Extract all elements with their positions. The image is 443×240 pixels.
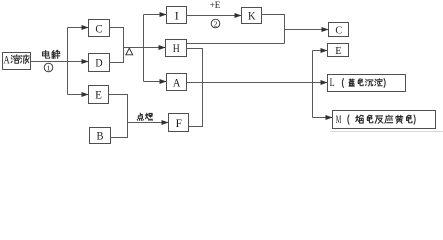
node C box right: [329, 23, 349, 37]
node D box: [89, 54, 110, 72]
wire branch vertical right: [312, 51, 314, 118]
arrowhead into F: [162, 120, 169, 125]
node E box right: [328, 44, 349, 57]
wire scan artifact: [330, 131, 443, 133]
wire H bottom elbow: [187, 49, 203, 127]
svg-text:1: 1: [47, 63, 51, 72]
label 电解: [42, 50, 59, 58]
svg-text:I: I: [175, 9, 179, 23]
node C box left: [89, 20, 110, 37]
arrowhead into E2: [321, 48, 328, 53]
wire branch vertical mid: [143, 15, 145, 82]
arrowhead into L: [321, 80, 328, 85]
label ①: [44, 63, 53, 72]
wire H top to merge: [187, 43, 285, 45]
wire merge to F: [128, 122, 169, 124]
arrowhead into C: [82, 25, 89, 30]
wire A to L: [187, 82, 328, 84]
svg-text:+E: +E: [210, 0, 221, 10]
node E box left: [89, 86, 109, 104]
wire branch to I: [144, 14, 167, 16]
wire K right elbow: [262, 15, 285, 44]
svg-text:L: L: [330, 75, 335, 89]
wire branch to E2: [313, 50, 328, 52]
label ②: [211, 19, 220, 28]
svg-text:F: F: [176, 116, 183, 130]
node K box: [242, 8, 262, 24]
arrowhead into H: [159, 45, 166, 50]
arrowhead into E: [82, 92, 89, 97]
svg-text:M: M: [336, 112, 342, 126]
arrowhead into A: [160, 79, 167, 84]
svg-text:2: 2: [214, 19, 218, 28]
wire branch vertical left: [67, 28, 69, 95]
svg-text:A: A: [4, 55, 11, 67]
wire D right elbow: [110, 48, 124, 63]
arrowhead into D: [82, 59, 89, 64]
svg-text:K: K: [248, 9, 256, 23]
svg-text:E: E: [95, 88, 102, 102]
wire I to K: [187, 15, 242, 17]
label △: [126, 48, 133, 55]
node L box: [328, 75, 406, 92]
label 点燃: [137, 113, 152, 120]
arrowhead into C2: [322, 27, 329, 32]
svg-text:E: E: [335, 45, 342, 57]
node M box: [333, 111, 436, 129]
label A溶液: [4, 55, 30, 67]
wire branch to A: [144, 81, 167, 83]
node H box: [166, 40, 187, 57]
node A-solution box: [3, 53, 31, 70]
node F box: [169, 114, 189, 132]
wire A to D: [31, 61, 89, 63]
svg-text:D: D: [95, 56, 102, 70]
wire merge to H: [124, 47, 166, 49]
label M（焰色反应黄色）: [336, 112, 415, 126]
svg-text:B: B: [97, 129, 104, 143]
wire branch to E: [68, 94, 89, 96]
node B box: [90, 128, 111, 144]
wire branch to C: [68, 27, 89, 29]
wire branch to M: [313, 117, 333, 119]
wire E right elbow: [109, 95, 128, 138]
label L（蓝色沉淀）: [330, 75, 386, 89]
node I box: [167, 7, 187, 24]
svg-text:C: C: [335, 24, 342, 36]
arrowhead into K: [235, 13, 242, 18]
wire merge to C2: [285, 29, 329, 31]
node A box: [167, 74, 187, 91]
wire C right elbow: [110, 28, 124, 48]
arrowhead into M: [326, 115, 333, 120]
svg-text:H: H: [173, 41, 180, 55]
svg-text:A: A: [173, 75, 181, 89]
arrowhead into I: [160, 12, 167, 17]
svg-text:C: C: [95, 22, 102, 36]
